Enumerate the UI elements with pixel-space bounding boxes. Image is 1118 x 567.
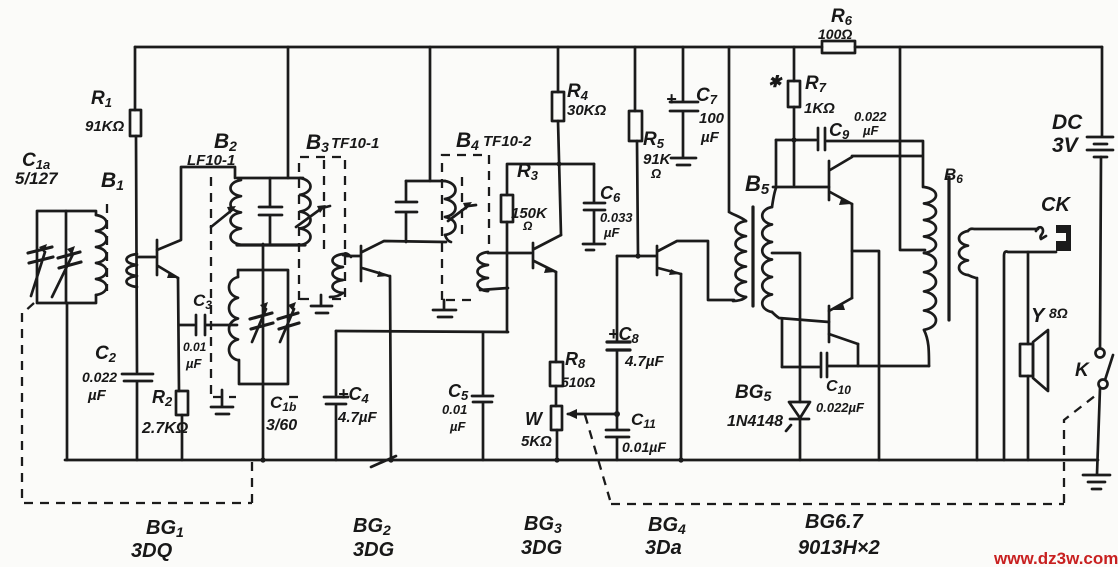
variable capacitor C1b section 2 xyxy=(278,313,299,329)
node BG4 emitter at ground bus xyxy=(678,457,683,462)
wire R3 top to collector node xyxy=(507,164,594,195)
svg-text:www.dz3w.com: www.dz3w.com xyxy=(993,549,1118,567)
svg-text:R2: R2 xyxy=(152,387,173,409)
wire base stub xyxy=(138,256,155,259)
svg-text:+: + xyxy=(666,89,677,109)
wire battery feed xyxy=(1101,47,1104,136)
wire R1 to base / C2 xyxy=(136,136,137,460)
svg-text:BG3: BG3 xyxy=(524,513,562,536)
svg-text:C10: C10 xyxy=(826,378,851,397)
node W wiper to C11 rail xyxy=(614,411,620,417)
svg-text:K: K xyxy=(1075,360,1090,381)
svg-text:BG5: BG5 xyxy=(735,382,772,404)
wire B5 bottom tap to BG7 base xyxy=(772,312,829,322)
svg-text:B1: B1 xyxy=(101,169,124,193)
transformer B3 loop bottom wire xyxy=(237,243,305,246)
svg-text:0.022: 0.022 xyxy=(82,369,117,385)
transformer B6 left top winding xyxy=(924,187,936,253)
transformer B6 core xyxy=(947,177,950,320)
ground near C1b xyxy=(211,390,233,414)
dashed gang link C1a xyxy=(106,204,108,291)
node BG2 emitter at ground bus xyxy=(388,457,393,462)
svg-text:3V: 3V xyxy=(1052,134,1080,157)
svg-text:3DG: 3DG xyxy=(521,537,562,559)
svg-text:30KΩ: 30KΩ xyxy=(567,102,607,119)
capacitor C3 xyxy=(179,315,237,335)
antenna tank box B1 xyxy=(37,211,96,303)
svg-text:1N4148: 1N4148 xyxy=(727,413,783,430)
dashed shield B3 xyxy=(299,157,345,300)
dashed shield B4 xyxy=(442,155,489,300)
svg-text:+C8: +C8 xyxy=(608,324,640,346)
trimmer arrow B4 xyxy=(448,205,476,221)
wire base node xyxy=(617,255,656,258)
transistor BG4 xyxy=(656,246,659,275)
potentiometer W xyxy=(555,386,558,406)
trimmer arrow B2 right xyxy=(296,206,330,227)
capacitor C5 xyxy=(472,332,493,460)
capacitor C7 xyxy=(670,47,698,157)
svg-text:R1: R1 xyxy=(91,88,112,110)
capacitor C4 xyxy=(324,331,348,460)
wire W to ground bus xyxy=(556,430,559,460)
svg-text:91KΩ: 91KΩ xyxy=(85,118,125,135)
diode BG5 xyxy=(786,402,810,431)
svg-text:C3: C3 xyxy=(193,291,212,312)
svg-text:µF: µF xyxy=(862,123,879,138)
wire R2 to ground bus xyxy=(181,415,184,460)
capacitor C6 xyxy=(584,164,605,243)
dashed module outline BG1 xyxy=(22,303,252,503)
ground under C7 xyxy=(671,158,696,165)
svg-text:3DG: 3DG xyxy=(353,539,394,561)
wire B5 top tap to BG6 base xyxy=(772,187,829,207)
svg-text:BG6.7: BG6.7 xyxy=(805,511,864,533)
variable capacitor C1a section 2 xyxy=(58,252,81,268)
node R7 to C9 xyxy=(791,137,796,142)
coupling coil to BG2 base xyxy=(333,254,344,293)
transformer B5 secondary xyxy=(762,207,772,312)
variable capacitor C1b section 1 xyxy=(250,313,273,329)
svg-text:B4: B4 xyxy=(456,129,479,153)
wire supply to B3 loop xyxy=(287,47,290,178)
switch K xyxy=(1096,349,1105,358)
svg-text:BG2: BG2 xyxy=(353,515,391,538)
svg-text:DC: DC xyxy=(1052,111,1083,134)
svg-text:CK: CK xyxy=(1041,194,1071,216)
trimmer arrow B2 left xyxy=(211,210,232,227)
wire tap to C10 xyxy=(781,319,784,367)
svg-text:100Ω: 100Ω xyxy=(818,26,852,42)
svg-text:µF: µF xyxy=(603,225,620,240)
svg-text:9013H×2: 9013H×2 xyxy=(798,537,880,559)
oscillator tank coil xyxy=(229,277,238,360)
capacitor C11 xyxy=(606,350,629,460)
svg-text:510Ω: 510Ω xyxy=(561,374,595,390)
stray ink stroke at bus xyxy=(371,456,396,467)
node R3 collector tap xyxy=(557,162,562,167)
speaker Y xyxy=(1020,344,1033,376)
antenna coil xyxy=(96,215,107,295)
resistor R3 xyxy=(501,195,513,222)
wire speaker feed xyxy=(1027,252,1030,344)
svg-text:5KΩ: 5KΩ xyxy=(521,433,552,450)
capacitor in B3 loop xyxy=(259,178,282,244)
svg-text:0.01: 0.01 xyxy=(183,340,207,354)
ground under switch xyxy=(1083,475,1110,489)
svg-text:µF: µF xyxy=(87,387,107,404)
svg-text:W: W xyxy=(525,409,544,429)
svg-text:Ω: Ω xyxy=(522,219,533,233)
battery DC 3V xyxy=(1087,137,1113,157)
wire B6 centre tap to supply xyxy=(900,47,925,250)
svg-text:Y: Y xyxy=(1031,305,1046,327)
svg-text:TF10-2: TF10-2 xyxy=(483,133,532,150)
svg-text:0.022: 0.022 xyxy=(854,109,887,124)
transistor BG2 xyxy=(360,246,363,281)
svg-text:+C4: +C4 xyxy=(338,384,370,406)
wire BG2 emitter to ground bus xyxy=(390,276,391,460)
svg-text:R7: R7 xyxy=(805,73,827,95)
transformer B5 primary xyxy=(736,221,747,297)
svg-text:8Ω: 8Ω xyxy=(1049,305,1068,321)
wire tank centre to ground bus xyxy=(262,244,265,460)
svg-text:B5: B5 xyxy=(745,171,770,198)
svg-text:R5: R5 xyxy=(643,129,665,151)
wire switch to ground xyxy=(1097,388,1100,474)
transistor BG1 xyxy=(156,240,159,275)
svg-text:✱: ✱ xyxy=(768,74,783,91)
svg-text:3DQ: 3DQ xyxy=(131,540,173,562)
capacitor C2 xyxy=(122,374,153,381)
wire BG1 emitter xyxy=(178,278,179,391)
svg-text:C2: C2 xyxy=(95,343,117,365)
capacitor C8 xyxy=(616,256,619,340)
svg-text:R6: R6 xyxy=(831,6,853,28)
transformer B6 left bottom winding xyxy=(924,253,936,330)
ground under B3 shield xyxy=(311,295,332,313)
transformer B5 core xyxy=(751,207,754,306)
resistor R2 xyxy=(176,391,188,415)
transformer B4 loop capacitor xyxy=(396,181,417,242)
wire jack to speaker line xyxy=(1004,252,1056,461)
capacitor C10 xyxy=(782,353,929,377)
resistor R8 xyxy=(550,362,563,386)
wire BG6 emitter to ground bus xyxy=(852,251,879,460)
wire supply to B4 loop xyxy=(429,47,432,181)
dashed shield B2 xyxy=(211,177,299,397)
svg-text:4.7µF: 4.7µF xyxy=(624,353,664,370)
wire BG7 collector to B6 xyxy=(857,344,860,366)
transformer B6 secondary xyxy=(959,231,968,275)
wire BG3 emitter to R8 xyxy=(555,272,558,362)
svg-text:3/60: 3/60 xyxy=(266,417,297,434)
svg-text:0.01µF: 0.01µF xyxy=(622,439,666,455)
capacitor C9 xyxy=(776,128,923,187)
svg-text:B2: B2 xyxy=(214,130,237,154)
coupling coil to BG3 base xyxy=(478,252,489,291)
transistor BG3 xyxy=(532,243,535,268)
wire battery to switch xyxy=(1100,157,1101,348)
svg-text:LF10-1: LF10-1 xyxy=(187,152,235,169)
wire R3 bottom xyxy=(506,222,509,332)
jack CK body xyxy=(1056,225,1071,251)
transformer B3 primary loop top wire xyxy=(237,177,303,180)
transformer B3 left winding xyxy=(231,180,242,245)
svg-text:4.7µF: 4.7µF xyxy=(337,409,377,426)
svg-text:µF: µF xyxy=(185,356,202,371)
resistor R5 xyxy=(634,47,637,111)
transformer B3 right tuned winding xyxy=(300,178,311,245)
resistor R7 xyxy=(793,47,796,81)
wire R4 to supply and collector xyxy=(558,47,561,235)
wire bottom ground bus xyxy=(65,459,1098,462)
svg-text:5/127: 5/127 xyxy=(15,169,59,188)
wire BG6 emitter to BG7 xyxy=(851,204,854,298)
transformer B4 tuned winding xyxy=(445,181,456,235)
svg-text:0.033: 0.033 xyxy=(600,210,633,225)
wire emitter bypass rail xyxy=(336,331,508,332)
ground under C6 xyxy=(583,244,605,250)
node osc tank at ground bus xyxy=(260,457,265,462)
wire R5 to BG4 base xyxy=(637,141,638,255)
node R5 to BG4 base xyxy=(635,253,640,258)
svg-text:100: 100 xyxy=(699,110,725,127)
transformer B4 loop top wire xyxy=(406,180,445,183)
svg-text:1KΩ: 1KΩ xyxy=(804,100,835,117)
dashed module outline BG6.7 xyxy=(585,392,1100,504)
svg-text:R8: R8 xyxy=(565,349,586,371)
coupling coil to BG1 base xyxy=(127,254,138,287)
svg-text:R4: R4 xyxy=(567,81,589,103)
svg-text:BG1: BG1 xyxy=(146,517,184,540)
resistor R6 xyxy=(822,41,855,53)
svg-text:C11: C11 xyxy=(631,410,656,431)
svg-text:3Da: 3Da xyxy=(645,537,682,559)
svg-text:Ω: Ω xyxy=(650,166,661,181)
svg-text:B3: B3 xyxy=(306,131,329,155)
resistor R4 xyxy=(552,92,564,121)
oscillator tank box C1b xyxy=(238,270,288,384)
svg-text:µF: µF xyxy=(449,419,466,434)
svg-text:TF10-1: TF10-1 xyxy=(331,135,379,152)
resistor R1 xyxy=(134,47,137,110)
svg-text:C9: C9 xyxy=(829,120,850,142)
node W at ground bus xyxy=(554,457,559,462)
svg-text:C7: C7 xyxy=(696,85,718,107)
svg-text:µF: µF xyxy=(700,129,720,146)
svg-text:BG4: BG4 xyxy=(648,514,686,537)
jack contact hook xyxy=(1036,227,1046,239)
svg-text:0.022µF: 0.022µF xyxy=(816,400,865,415)
wire B5 centre tap to diode xyxy=(772,253,800,402)
wire BG4 emitter to ground bus xyxy=(680,274,683,460)
svg-text:C5: C5 xyxy=(448,381,469,403)
transistor BG6 xyxy=(828,161,831,200)
ground under B4 shield xyxy=(433,300,456,317)
svg-text:0.01: 0.01 xyxy=(442,402,467,417)
svg-text:B6: B6 xyxy=(944,165,963,186)
wire top supply bus xyxy=(135,46,1102,49)
transistor BG7 xyxy=(828,306,831,342)
wire R7 node down to BG6 base rail xyxy=(775,140,778,186)
svg-text:C6: C6 xyxy=(600,183,621,205)
wire antenna tank to ground bus xyxy=(66,211,67,460)
variable capacitor C1a section 1 xyxy=(28,247,53,263)
